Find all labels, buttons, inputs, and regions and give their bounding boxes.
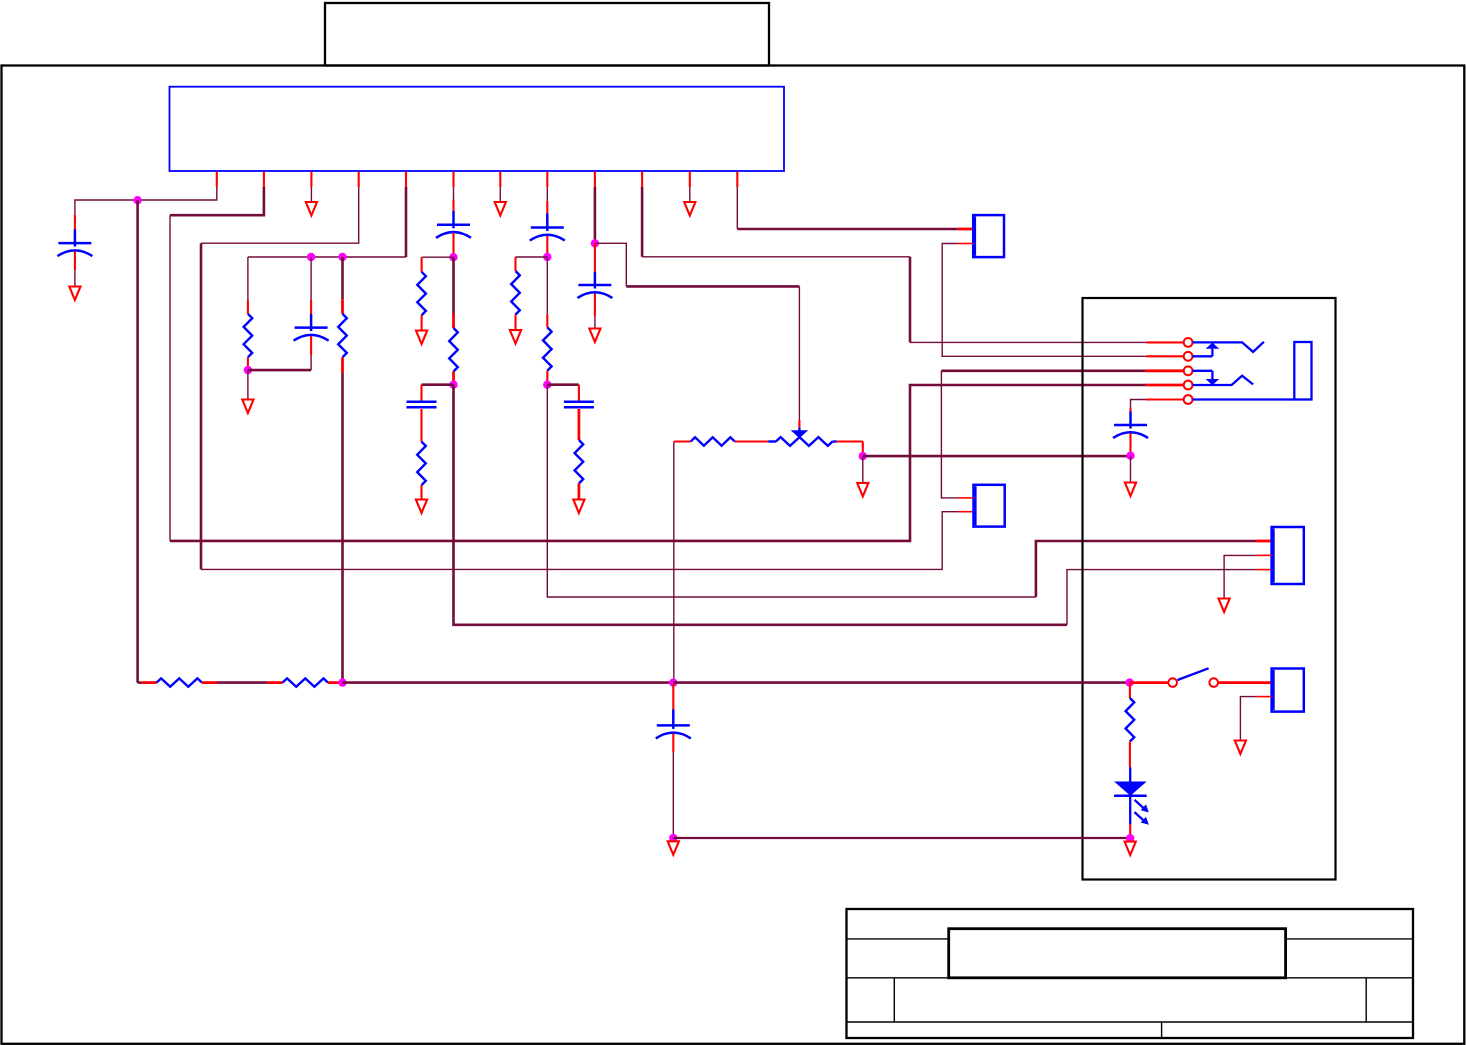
capacitor C3 <box>452 211 455 225</box>
resistor R12 <box>1126 698 1135 742</box>
U1 pin 12 stub <box>736 172 738 188</box>
connector J1 <box>973 215 1004 257</box>
ground J4 pin2 <box>1235 741 1246 755</box>
jack J5 body <box>1294 342 1311 400</box>
wire bus mid <box>343 681 674 684</box>
resistor R10 <box>283 678 329 686</box>
wire N7 to R7 <box>546 257 548 315</box>
resistor R8 <box>575 440 584 484</box>
wire R8 to ground <box>578 484 581 500</box>
wire C9 to N11 <box>1129 434 1131 456</box>
wire link N5-R3 <box>422 256 454 258</box>
wire R11 to RV1 <box>735 440 769 442</box>
U1 pin 1 stub <box>216 172 218 188</box>
wire C6 to R8 <box>578 409 581 440</box>
wire link N8-C6 <box>547 383 579 386</box>
wire to R2 <box>341 257 344 299</box>
jack ring switch arrow <box>1193 370 1213 372</box>
ground pin11 <box>684 202 695 216</box>
U1 pin 11 stub <box>689 172 691 188</box>
capacitor C8 <box>672 709 675 725</box>
wire pin1 to C1 <box>75 187 217 215</box>
junction N10 <box>859 452 867 460</box>
wire N14 to switch <box>1130 681 1169 684</box>
connector J3 <box>1272 527 1304 584</box>
junction N15 <box>669 834 677 842</box>
wire N10 to N11 <box>863 455 1131 458</box>
title block row line B <box>847 977 1414 979</box>
resistor R11 <box>691 437 735 445</box>
U1 pin 4 stub <box>358 172 360 188</box>
ground C1 <box>69 287 80 301</box>
wire R4 to N6 <box>452 372 455 385</box>
wire link N7-R6 <box>516 256 548 258</box>
wire N13 to C8 <box>672 684 674 709</box>
junction N2 <box>307 253 315 261</box>
junction N13 <box>669 678 677 686</box>
ground N4 <box>242 400 253 414</box>
wire to R1 <box>247 257 249 300</box>
wire jack c5 to C9 <box>1146 398 1183 400</box>
wire bus right <box>673 681 1129 684</box>
wire pin11 <box>689 187 691 202</box>
wire link N4 <box>248 369 311 372</box>
ground C7 <box>589 329 600 343</box>
title block row line A <box>847 938 949 940</box>
wire R1 to N4 <box>247 357 249 370</box>
jack sleeve <box>1193 398 1295 400</box>
title block divider V2 <box>1365 978 1367 1022</box>
wire pin9 <box>594 187 597 243</box>
resistor R5 <box>417 442 426 486</box>
junction N11 <box>1126 452 1134 460</box>
U1 pin 8 stub <box>546 172 548 188</box>
junction N3 <box>338 253 346 261</box>
wire N4 to ground <box>247 370 249 399</box>
wire R9 to R10 <box>202 681 217 684</box>
wire pin5 <box>405 187 408 257</box>
title block inner box <box>949 929 1286 978</box>
wire R3 to ground <box>421 315 423 330</box>
wire pot row left <box>673 442 675 683</box>
resistor R3 <box>417 272 426 316</box>
wire pin10 to jack <box>642 256 910 258</box>
ground N11 <box>1125 483 1136 497</box>
wire N11 to ground <box>1130 456 1132 483</box>
wire link N6-C4 <box>422 383 454 386</box>
wire to R3 <box>421 257 423 272</box>
junction N4 <box>244 366 252 374</box>
wire switch to J4 <box>1218 681 1272 684</box>
wire net-A <box>248 256 406 258</box>
LED D1 light arrows <box>1135 800 1144 808</box>
wire to C2 <box>310 257 312 300</box>
wire pin8 <box>546 187 548 201</box>
wire J4 pin2 to ground <box>1256 696 1271 698</box>
wire to C4 <box>420 385 422 402</box>
ground N15 <box>668 841 679 855</box>
wire J1 pin2 (-> jack c2) <box>958 243 974 245</box>
junction N7 <box>543 253 551 261</box>
wire D1 to N16 <box>1129 824 1131 838</box>
wire C2 down <box>310 336 312 355</box>
U1 pin 9 stub <box>594 172 596 188</box>
capacitor C2 <box>310 314 313 328</box>
junction N5 <box>449 253 457 261</box>
resistor R4 <box>449 328 458 372</box>
wire pin4 net <box>201 187 359 243</box>
U1 pin 5 stub <box>405 172 407 188</box>
wire C7 to ground <box>594 294 596 317</box>
U1 pin 7 stub <box>499 172 501 188</box>
title block outer <box>847 909 1414 1038</box>
switch S1 throw <box>1209 678 1218 687</box>
wire R11 lead <box>674 440 691 442</box>
wire bus left vertical <box>136 200 139 682</box>
resistor R7 <box>543 327 552 371</box>
wire N10 to ground <box>862 456 864 483</box>
ground pin3 <box>306 202 317 216</box>
ground pin7 <box>495 202 506 216</box>
wire pin7 <box>499 187 501 202</box>
wire N8 long (to J3 pin1) <box>547 385 1036 597</box>
switch S1 pole <box>1168 678 1177 687</box>
switch S1 blade <box>1178 668 1209 680</box>
junction N14 <box>1125 678 1133 686</box>
wire RV1 right <box>837 440 863 442</box>
connector J4 <box>1272 669 1304 712</box>
wire to C7 <box>594 243 596 272</box>
junction N8 <box>543 381 551 389</box>
junction N12 <box>338 678 346 686</box>
wire R2 down bus <box>341 357 344 372</box>
capacitor C1 <box>74 229 77 243</box>
wire pin6 <box>453 187 455 200</box>
wire to C6 <box>578 385 580 402</box>
wire R7 to N8 <box>546 371 548 385</box>
ground R6 <box>510 330 521 344</box>
junction N1 <box>133 196 141 204</box>
jack tip switch arrow <box>1193 355 1213 357</box>
capacitor C9 <box>1129 412 1132 426</box>
ground N16 <box>1125 842 1136 856</box>
ground R5 <box>416 500 427 514</box>
junction N6 <box>449 381 457 389</box>
top title box <box>325 3 769 66</box>
wire C5 to N7 <box>546 236 548 257</box>
component box <box>1083 298 1336 880</box>
title block divider V3 <box>1161 1022 1163 1038</box>
wire to R6 <box>514 257 516 271</box>
connector J2 <box>974 485 1005 527</box>
ground N10 <box>857 483 868 497</box>
jack pin circles <box>1184 338 1193 347</box>
wire R5 to ground <box>420 485 422 499</box>
wire pin2 net <box>170 187 264 215</box>
resistor R2 <box>338 314 347 358</box>
wire bus start <box>138 681 142 684</box>
potentiometer RV1 <box>768 440 776 442</box>
wire N5 to R4 <box>452 257 455 313</box>
IC U1 <box>170 87 785 171</box>
capacitor C4 <box>407 401 437 404</box>
wire J3 pin2 to ground <box>1256 554 1271 556</box>
U1 pin 3 stub <box>310 172 312 188</box>
wire C1 to ground <box>74 252 76 271</box>
U1 pin 6 stub <box>452 172 454 188</box>
ground J3 pin2 <box>1219 599 1230 613</box>
junction N9 <box>591 239 599 247</box>
resistor R1 <box>244 314 253 358</box>
capacitor C7 <box>594 272 597 285</box>
wire C8 to N15 <box>672 734 674 753</box>
wire N6 long (to J3 pin3) <box>454 385 1068 625</box>
title block divider V1 <box>893 978 895 1022</box>
title block row line C <box>847 1021 1414 1023</box>
junction N16 <box>1126 834 1134 842</box>
wire R12 to D1 <box>1129 742 1131 768</box>
capacitor C6 <box>564 401 594 404</box>
wire R10 to N12 <box>328 681 341 684</box>
LED D1 <box>1129 767 1131 781</box>
U1 pin 2 stub <box>263 172 265 188</box>
capacitor C5 <box>546 214 549 228</box>
wire pin3 <box>310 187 312 202</box>
U1 pin 10 stub <box>641 172 643 188</box>
wire C3 to N5 <box>452 233 454 257</box>
wire R6 to ground <box>514 315 516 331</box>
ground R8 <box>573 500 584 514</box>
wire N15 to N16 <box>673 837 1130 839</box>
resistor R6 <box>511 271 520 315</box>
wire C4 to R5 <box>420 409 422 442</box>
ground R3 <box>416 331 427 345</box>
wire J2 pin1 (-> jack c3) <box>958 497 974 499</box>
wire N14 to R12 <box>1129 683 1131 698</box>
resistor R9 <box>157 678 203 686</box>
jack ring contact <box>1193 376 1254 385</box>
wire N9 to pot wiper <box>595 243 626 286</box>
wire pin10 <box>641 187 644 257</box>
wire pin12 <box>736 187 738 229</box>
jack tip contact <box>1193 342 1264 352</box>
